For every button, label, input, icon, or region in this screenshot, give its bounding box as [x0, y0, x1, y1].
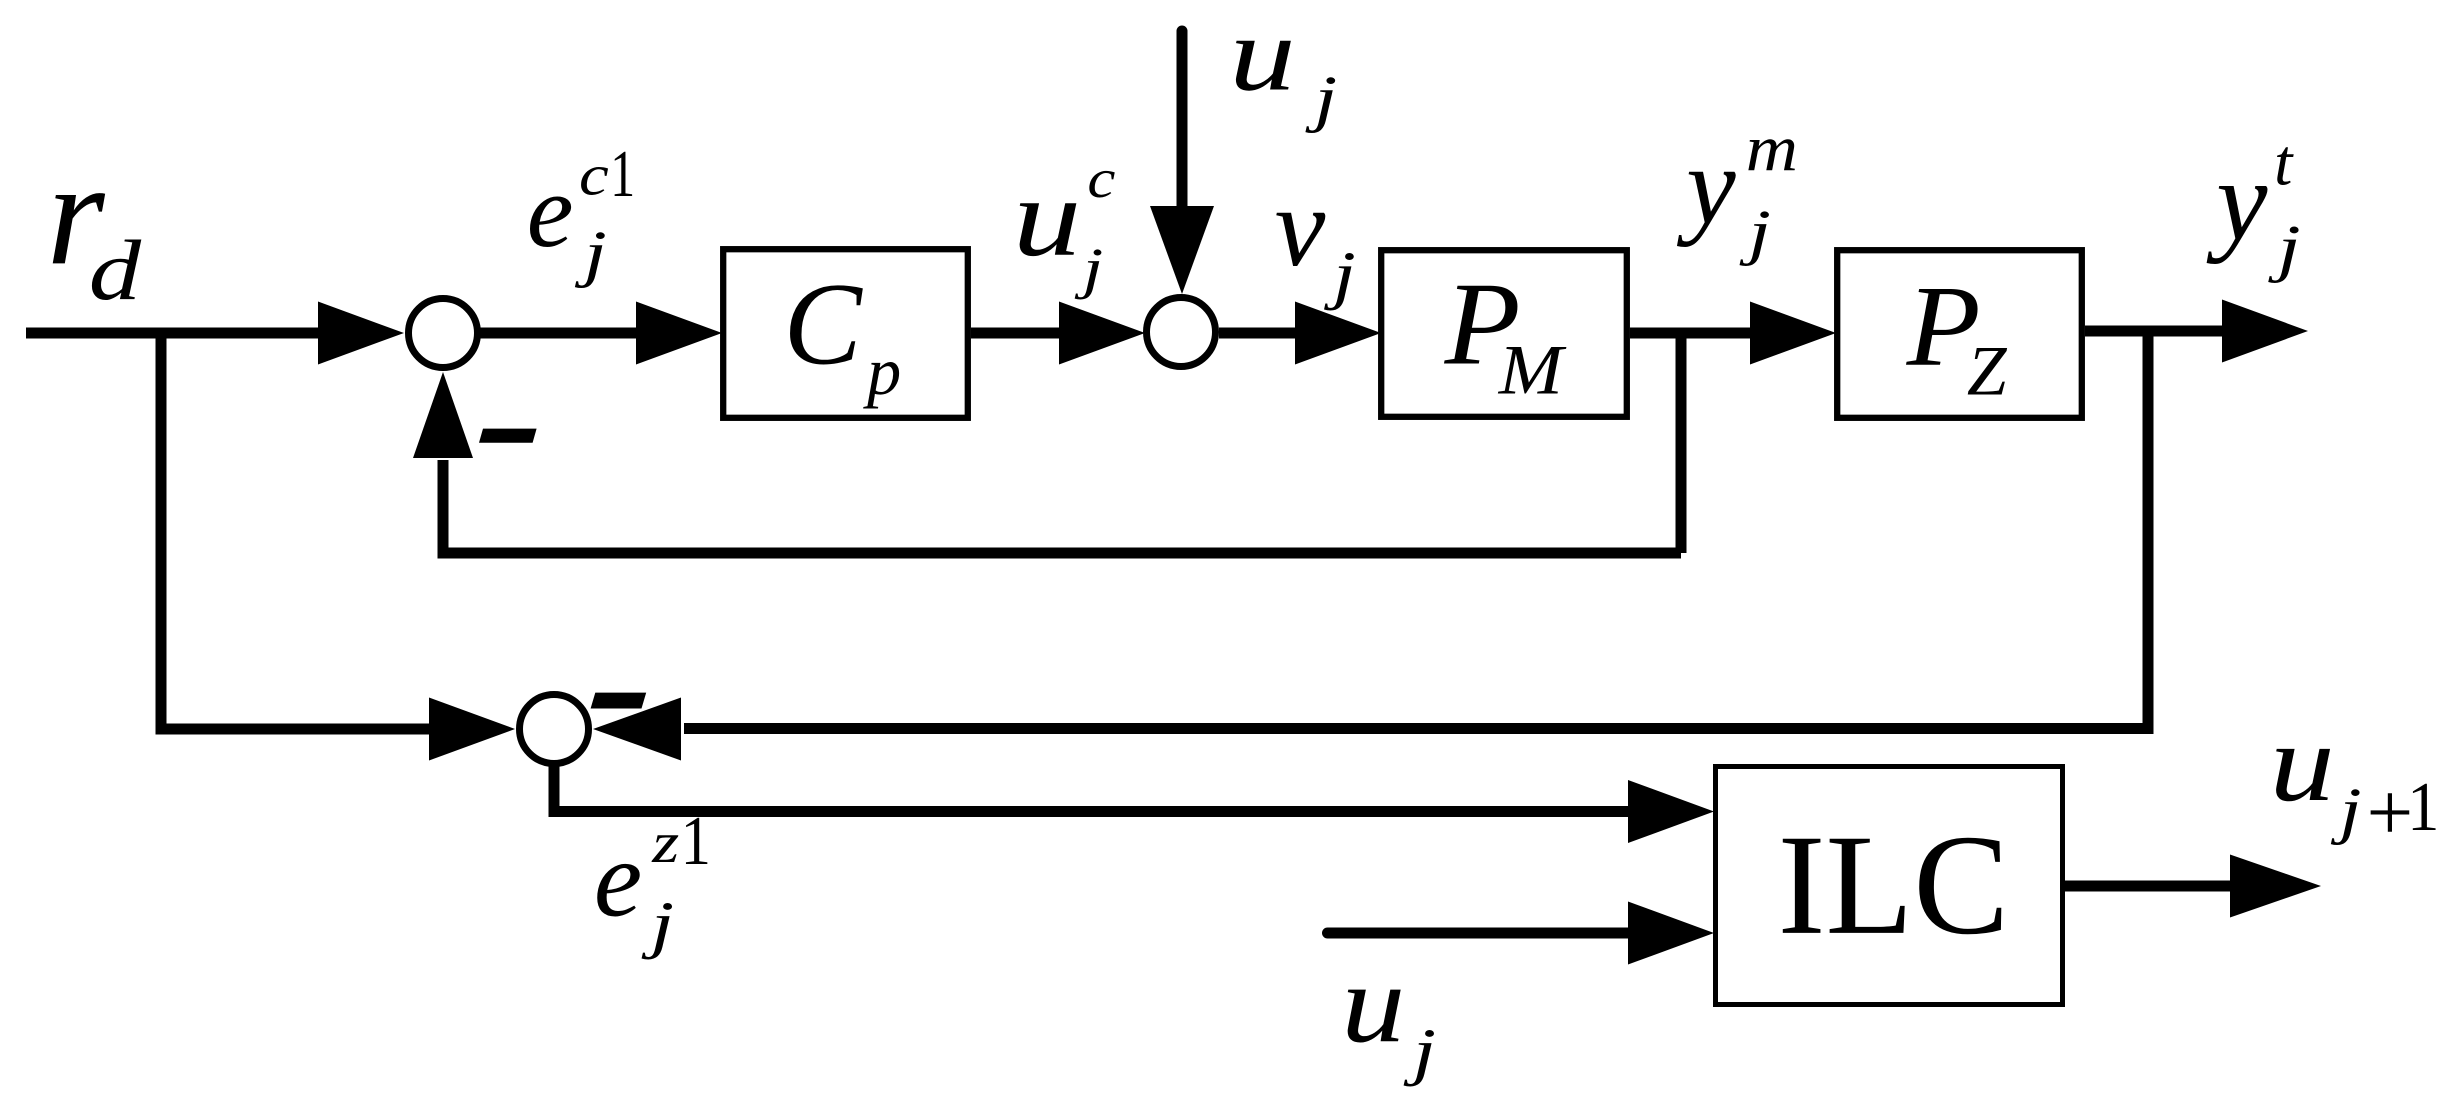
svg-text:ILC: ILC — [1778, 806, 2010, 965]
svg-text:u: u — [1341, 942, 1405, 1066]
svg-text:e: e — [594, 819, 642, 940]
svg-text:1: 1 — [2407, 768, 2439, 846]
svg-text:Z: Z — [1967, 331, 2008, 410]
svg-text:1: 1 — [681, 803, 711, 880]
svg-text:v: v — [1275, 164, 1326, 290]
svg-text:m: m — [1746, 111, 1798, 184]
svg-text:u: u — [2270, 702, 2335, 825]
svg-text:C: C — [784, 259, 864, 389]
svg-text:t: t — [2274, 126, 2294, 199]
svg-text:1: 1 — [610, 137, 635, 211]
svg-text:p: p — [863, 333, 901, 409]
svg-text:M: M — [1498, 331, 1568, 410]
svg-text:y: y — [2206, 136, 2268, 264]
svg-text:u: u — [1229, 0, 1295, 113]
svg-text:c: c — [1087, 148, 1115, 209]
svg-text:e: e — [527, 152, 574, 269]
svg-text:d: d — [89, 223, 143, 318]
svg-text:c: c — [579, 142, 609, 207]
svg-text:u: u — [1013, 155, 1081, 280]
svg-text:z: z — [651, 810, 679, 874]
